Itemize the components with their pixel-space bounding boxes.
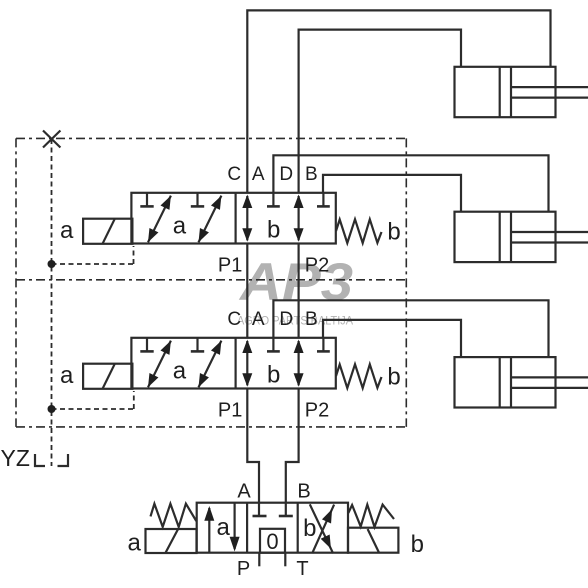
svg-text:b: b [303,515,316,542]
svg-text:YZ: YZ [1,445,30,471]
svg-text:T: T [296,558,308,580]
svg-text:a: a [217,514,231,541]
svg-text:B: B [297,480,310,502]
svg-text:A: A [237,480,251,502]
svg-text:P: P [237,558,250,580]
svg-text:a: a [128,530,142,557]
svg-text:AP3: AP3 [238,253,353,312]
svg-text:0: 0 [266,529,278,554]
svg-text:b: b [411,531,424,558]
